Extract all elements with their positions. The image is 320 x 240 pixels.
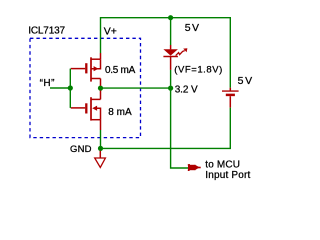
body arrow (points left = NMOS) bbox=[92, 106, 97, 111]
channel bbox=[90, 97, 92, 120]
top lead bbox=[91, 98, 101, 100]
svg-text:Input Port: Input Port bbox=[205, 170, 250, 181]
svg-text:0.5 mA: 0.5 mA bbox=[105, 65, 136, 76]
svg-text:8 mA: 8 mA bbox=[108, 107, 132, 118]
body lead vertical to top lead bbox=[91, 59, 101, 68]
ground symbol bbox=[95, 151, 106, 168]
IC boundary box ICL7137 (dashed) bbox=[30, 38, 141, 137]
wire mid rail from transistor drains to 3.2V node bbox=[101, 87, 171, 89]
wire gate vertical between Q1 and Q2 gates bbox=[69, 69, 71, 108]
svg-text:5 V: 5 V bbox=[185, 22, 199, 34]
battery B1 5V bbox=[222, 88, 239, 108]
node junction dot at 5V / LED anode bbox=[168, 15, 173, 20]
drain stub from V+ bbox=[100, 53, 102, 59]
body arrow (points right = PMOS) bbox=[94, 66, 99, 71]
gate lead bbox=[71, 107, 86, 109]
svg-text:ICL7137: ICL7137 bbox=[28, 26, 65, 37]
drain stub from mid node bbox=[100, 91, 102, 100]
svg-text:“H”: “H” bbox=[40, 78, 55, 89]
gate bar bbox=[85, 63, 87, 73]
wire LED cathode down to 3.2V node bbox=[170, 70, 172, 86]
gate lead bbox=[71, 68, 86, 70]
node GND junction dot bbox=[98, 146, 103, 151]
node junction dot at drains bbox=[98, 86, 103, 91]
gate bar bbox=[85, 103, 87, 113]
plus stub bbox=[229, 88, 231, 91]
LED light arrow (squiggle) bbox=[176, 48, 188, 55]
transistor Q1 PMOS 0.5mA source bbox=[71, 53, 101, 86]
wire V+ rail: drain of Q1 up, right along top, down to battery + bbox=[101, 18, 231, 88]
wire 3.2V node down to MCU branch corner, then right bbox=[171, 91, 191, 169]
LED D1 bbox=[163, 45, 178, 70]
wire gate node: from "H" to gates bbox=[50, 87, 70, 89]
short plate (-) bbox=[226, 94, 235, 97]
arrow to MCU input port bbox=[188, 164, 201, 171]
bottom lead bbox=[91, 78, 101, 80]
svg-text:5 V: 5 V bbox=[238, 75, 253, 87]
transistor Q2 NMOS 8mA sink bbox=[71, 91, 101, 131]
body lead vertical to bottom lead bbox=[96, 108, 101, 120]
svg-text:3.2 V: 3.2 V bbox=[175, 85, 198, 96]
svg-text:V+: V+ bbox=[104, 26, 117, 38]
minus stub bbox=[229, 96, 231, 107]
node 3.2V junction dot bbox=[168, 86, 173, 91]
source stub down bbox=[100, 120, 102, 130]
wire Q2 source down to GND node bbox=[100, 130, 102, 148]
bottom lead bbox=[91, 119, 101, 121]
wire LED anode from 5V rail down bbox=[170, 18, 172, 46]
source stub down to mid node bbox=[100, 79, 102, 86]
svg-text:to MCU: to MCU bbox=[205, 160, 240, 171]
node gate junction dot bbox=[68, 85, 73, 90]
svg-text:(VF=1.8V): (VF=1.8V) bbox=[174, 64, 223, 75]
svg-text:GND: GND bbox=[70, 144, 92, 155]
wire GND rail to battery minus bbox=[101, 108, 231, 149]
long plate (+) bbox=[222, 90, 239, 92]
top lead bbox=[91, 58, 101, 60]
channel bbox=[90, 57, 92, 81]
